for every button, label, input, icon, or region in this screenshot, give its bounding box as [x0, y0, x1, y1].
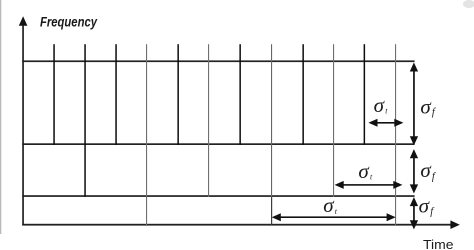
- sigma_t label band 1: [374, 93, 389, 117]
- band 2 / band 3 boundary line: [22, 195, 414, 197]
- sigma_f label band 3: [419, 194, 436, 218]
- svg-text:σ: σ: [358, 159, 370, 183]
- svg-text:σ: σ: [420, 158, 432, 182]
- band 1 top line: [22, 60, 414, 62]
- sigma_f double arrow band 3: [410, 197, 418, 229]
- svg-text:σ: σ: [323, 193, 335, 217]
- band 1-3 cell line x=147 (gray): [146, 44, 147, 225]
- band 1 cell line x=54: [53, 44, 55, 145]
- sigma_f double arrow band 1: [410, 62, 418, 145]
- band 1 cell line x=364: [364, 44, 366, 145]
- sigma_t label band 2: [358, 159, 373, 183]
- band 1-3 cell line x=395 (gray): [395, 44, 396, 225]
- band 3 segment of x=271 line: [271, 197, 272, 225]
- band 1+2 cell line x=209 (gray): [208, 44, 209, 197]
- time axis (x-axis): [22, 220, 460, 229]
- band 1 cell line x=178: [177, 44, 179, 145]
- svg-text:σ: σ: [419, 194, 431, 218]
- sigma_t double arrow band 2: [335, 181, 403, 189]
- sigma_f label band 1: [420, 94, 437, 118]
- sigma_t double arrow band 1: [368, 119, 403, 127]
- band 1+2 cell line x=333 (gray): [333, 44, 334, 197]
- top-right corner scan smudge: [463, 0, 474, 8]
- sigma_f double arrow band 2: [410, 149, 418, 193]
- svg-text:σ: σ: [374, 93, 386, 117]
- svg-text:Frequency: Frequency: [40, 13, 98, 29]
- band 1 / band 2 boundary line: [22, 143, 414, 145]
- svg-text:Time: Time: [423, 237, 454, 250]
- band 1+2 cell line x=85: [84, 44, 86, 197]
- sigma_t double arrow band 3: [272, 213, 396, 221]
- sigma_f label band 2: [420, 158, 437, 182]
- band 1 cell line x=303: [302, 44, 304, 145]
- svg-text:σ: σ: [420, 94, 432, 118]
- band 1 cell line x=240: [239, 44, 241, 145]
- frequency axis (y-axis): [19, 16, 28, 225]
- sigma_t label band 3: [323, 193, 338, 217]
- band 1-3 cell line x=271 (gray): [271, 44, 272, 197]
- left edge scan artifact: [0, 0, 1, 234]
- band 1 cell line x=116: [115, 44, 117, 145]
